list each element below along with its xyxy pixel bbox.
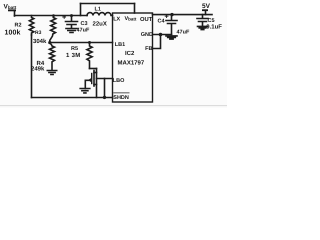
- transistor Q1 source tap: [94, 84, 97, 86]
- svg-text:R2: R2: [15, 23, 22, 29]
- inductor L1: [87, 13, 113, 16]
- ground below R4: [47, 71, 56, 75]
- svg-text:304k: 304k: [33, 38, 47, 45]
- op-amp IC2 MAX1797 box: [113, 13, 153, 102]
- node 5V supply stub: [202, 9, 208, 11]
- wire faint page rule at bottom: [0, 105, 227, 107]
- pin SHDN overline: [113, 92, 129, 94]
- resistor R3: [50, 16, 56, 43]
- polarity plus C3: [63, 16, 66, 19]
- wire top bypass horizontal: [81, 3, 135, 5]
- svg-text:R3: R3: [35, 30, 42, 36]
- transistor Q1 drain tap: [94, 72, 97, 74]
- svg-text:C5: C5: [208, 18, 215, 24]
- wire top bypass drop to IC Vbatt pin: [134, 4, 136, 14]
- svg-text:249k: 249k: [31, 66, 45, 73]
- wire OUT rail: [153, 14, 213, 16]
- node R3 top junction: [52, 14, 55, 17]
- node LBI junction: [48, 41, 51, 44]
- node R5 top junction: [88, 41, 91, 44]
- capacitor C3: [66, 16, 78, 29]
- ground below C3: [66, 29, 77, 33]
- svg-text:R5: R5: [71, 46, 78, 52]
- node Vbatt supply stub: [8, 9, 16, 11]
- wire R2 bottom to bottom rail: [31, 35, 33, 98]
- svg-text:MAX1797: MAX1797: [118, 59, 145, 66]
- capacitor C4: [166, 15, 177, 35]
- resistor R2: [29, 16, 33, 36]
- svg-text:22uX: 22uX: [93, 21, 107, 28]
- svg-text:Vbatt: Vbatt: [4, 3, 17, 10]
- resistor R5: [87, 43, 92, 69]
- transistor Q1 channel bar: [93, 71, 95, 87]
- svg-text:5V: 5V: [202, 3, 211, 10]
- ground at Q1 gate: [80, 89, 90, 93]
- svg-text:Vbatt: Vbatt: [125, 16, 137, 22]
- svg-text:C3: C3: [81, 21, 88, 27]
- svg-text:LBO: LBO: [113, 78, 125, 84]
- svg-text:47uF: 47uF: [177, 30, 190, 36]
- polarity plus C4: [165, 15, 168, 18]
- node C4 junction: [170, 13, 173, 16]
- node C3 top junction: [70, 14, 73, 17]
- wire top bypass riser: [80, 4, 82, 16]
- capacitor C5: [197, 15, 208, 26]
- ground below C5: [198, 26, 208, 29]
- wire FB tie: [153, 35, 161, 49]
- wire top rail: [15, 15, 88, 17]
- svg-text:FB: FB: [145, 46, 152, 52]
- wire R5 to Q1 drain: [90, 68, 97, 70]
- svg-text:IC2: IC2: [125, 50, 135, 57]
- wire Q1 gate lead: [85, 80, 88, 88]
- wire 5V stub: [205, 11, 207, 15]
- node bottom tie junction: [103, 96, 106, 99]
- svg-text:SHDN: SHDN: [113, 95, 129, 101]
- wire GND pin to C4 bottom: [153, 34, 172, 36]
- svg-text:1 3M: 1 3M: [66, 52, 81, 59]
- svg-text:L1: L1: [95, 6, 101, 12]
- wire bottom rail: [32, 97, 113, 99]
- transistor Q1 body arrow: [88, 78, 92, 82]
- svg-text:LB1: LB1: [115, 42, 125, 48]
- wire LBI net: [50, 42, 113, 44]
- svg-text:OUT: OUT: [140, 16, 153, 23]
- transistor Q1 gate bar: [91, 74, 93, 84]
- node GND FB junction: [159, 33, 163, 37]
- svg-text:0.1uF: 0.1uF: [206, 24, 222, 31]
- ground below C4: [166, 36, 177, 39]
- wire Q1 body to LBO pin: [97, 78, 113, 80]
- svg-text:C4: C4: [158, 19, 166, 25]
- svg-text:47uF: 47uF: [77, 28, 90, 34]
- svg-text:LX: LX: [113, 16, 120, 22]
- wire Vbatt stub: [14, 11, 16, 17]
- transistor Q1 drain-source axis: [96, 69, 98, 98]
- svg-text:GND: GND: [141, 32, 153, 38]
- wire LBO SHDN vertical tie: [104, 79, 106, 98]
- svg-text:100k: 100k: [5, 29, 21, 37]
- resistor R4: [50, 43, 55, 70]
